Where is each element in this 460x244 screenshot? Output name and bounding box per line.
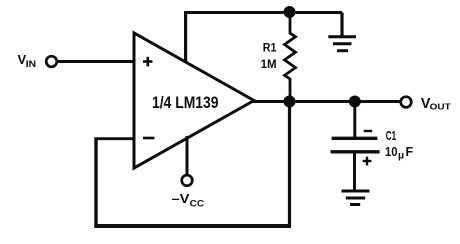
wire feedback: bottom run [95,224,292,228]
svg-text:R1: R1 [263,41,277,55]
junction capacitor node [349,96,361,108]
svg-text:–V: –V [172,191,190,206]
wire top rail [184,11,342,14]
op-amp U1 1/4 LM139 [134,33,254,168]
svg-text:10: 10 [385,145,398,159]
svg-text:μ: μ [398,151,404,162]
svg-text:1/4 LM139: 1/4 LM139 [152,94,219,112]
pin + (noninverting input) [143,57,153,67]
junction top node [284,6,296,18]
svg-text:1M: 1M [261,57,277,71]
terminal VOUT [401,97,412,108]
wire feedback to inverting input [95,137,136,140]
svg-text:OUT: OUT [430,102,452,112]
wire feedback: left riser [94,138,97,229]
svg-text:C1: C1 [386,129,396,143]
label -VCC [172,191,205,210]
wire C1 to ground [353,152,356,191]
pin - (inverting input) [143,137,155,140]
node VIN label [18,52,37,70]
terminal -VCC [182,175,193,186]
wire V- pin [186,136,189,175]
ground (below C1) [342,191,370,205]
capacitor C1 [331,131,380,165]
label R1 1M [261,41,277,72]
wire VIN to + input [58,60,136,63]
svg-text:IN: IN [26,59,36,70]
wire cap node to C1 [353,102,356,138]
junction output node [284,96,296,108]
svg-text:F: F [406,145,414,159]
resistor R1 [285,12,296,102]
ground (top right) [328,13,356,51]
wire output [252,100,401,103]
svg-text:CC: CC [190,199,205,210]
node VOUT label [421,96,452,112]
label C1 10uF [385,129,414,162]
terminal VIN [46,56,57,67]
wire feedback: output node down [288,102,291,227]
wire V+ pin to top rail [184,11,187,63]
